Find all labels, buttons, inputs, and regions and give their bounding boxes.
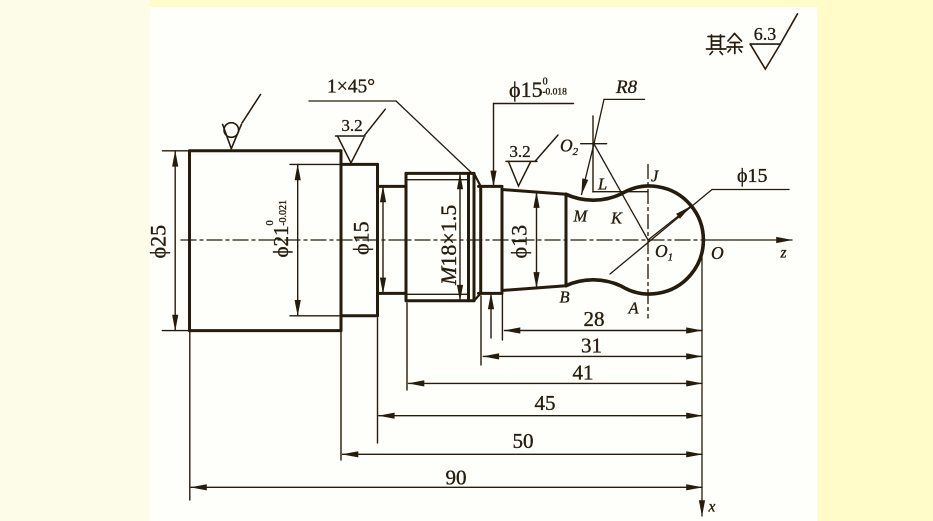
svg-text:ϕ25: ϕ25 [146,225,171,259]
1x45 leader [309,101,476,177]
R8 neck and phi15 ball profile [566,186,703,294]
M18 dimension [459,173,461,300]
svg-text:O: O [711,243,724,263]
L horizontal tick [593,191,648,193]
thread end chamfer [474,173,481,300]
svg-text:90: 90 [446,466,467,490]
svg-text:R8: R8 [615,77,638,98]
svg-text:41: 41 [573,361,594,385]
phi15(-0.018) land outline [479,186,503,293]
svg-text:31: 31 [581,334,602,358]
svg-text:3.2: 3.2 [509,142,530,161]
qiyu 6.3 roughness symbol [750,14,797,69]
roughness symbol 3.2 on phi21 [336,109,386,163]
phi15 ball leader [610,190,789,275]
phi15 groove dimension [382,186,384,293]
tapered phi13 section outline [502,190,566,291]
phi21 cylinder outline [341,164,378,315]
dimension 31 line [483,355,702,357]
surface finish symbol with circle on phi25 [223,95,261,149]
extension line at 41 [406,303,408,390]
white scanned drawing area [150,7,818,521]
phi15 relief groove outline [378,186,407,293]
M18 thread section outline [406,173,474,300]
ball vertical centerline through O1 [647,165,649,319]
O2 cross tick [581,143,607,145]
svg-text:28: 28 [584,307,605,331]
O2 vertical construction line [592,116,594,192]
extension line at 90 [189,331,191,500]
extension line at 31 [480,296,482,365]
dimension 45 line [379,415,702,417]
main horizontal centerline (dash-dot axis) [181,239,704,241]
svg-text:A: A [628,299,640,318]
z axis [704,239,792,241]
svg-text:B: B [560,288,570,307]
phi13 dimension [536,192,538,288]
dimension 41 line [409,382,703,384]
svg-text:ϕ15: ϕ15 [737,165,768,187]
svg-text:ϕ15: ϕ15 [349,221,374,255]
hanzi qi (其) [707,35,727,55]
extension line at 50 [340,332,342,460]
svg-text:M18×1.5: M18×1.5 [436,205,461,286]
dimension 90 line [191,486,702,488]
svg-text:K: K [610,209,623,228]
dimension 50 line [343,453,703,455]
roughness symbol 3.2 on phi15 land [506,135,558,186]
svg-text:z: z [780,245,787,262]
svg-text:3.2: 3.2 [341,116,362,135]
thread root lines [406,180,469,295]
dimension 28 line [505,330,703,332]
line O2 to O1 through K [594,144,648,240]
phi15-0.018 dimension arrows [491,104,574,339]
svg-text:6.3: 6.3 [754,24,777,44]
svg-text:ϕ13: ϕ13 [507,225,532,259]
svg-text:1×45°: 1×45° [327,77,375,98]
phi25 cylinder outline [190,151,342,331]
svg-text:L: L [597,175,607,194]
svg-text:50: 50 [513,429,534,453]
svg-text:x: x [708,499,716,516]
svg-text:M: M [573,207,589,226]
phi21 dimension [290,164,341,315]
extension line at 45 [377,318,379,443]
extension line at 28 [501,292,503,340]
lighter left page strip [0,0,150,521]
svg-text:J: J [651,167,659,186]
x axis extension line from O [701,252,703,516]
phi25 dimension [162,151,189,331]
svg-text:45: 45 [535,391,556,415]
hanzi yu (余) [727,34,743,54]
R8 leader with arrow [582,99,645,194]
